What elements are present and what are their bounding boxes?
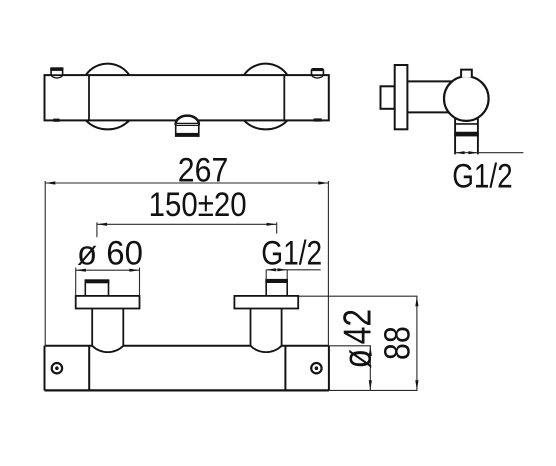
outlet below circle (455, 119, 478, 155)
left standpipe (92, 309, 123, 346)
left top knob (50, 68, 63, 78)
bar body fill (45, 346, 329, 391)
right valve body top arc (244, 64, 287, 76)
arrow left (side G1/2) (455, 151, 464, 154)
right underside mark (314, 118, 322, 121)
svg-text:G1/2: G1/2 (261, 235, 322, 273)
267 dimension (45, 181, 328, 346)
left screw (52, 363, 62, 373)
body bottom line (407, 111, 451, 113)
bar bottom edge (45, 389, 329, 391)
ø42 dimension line (369, 346, 371, 391)
valve circle (444, 76, 489, 121)
left G1/2 fitting (85, 280, 110, 296)
svg-text:267: 267 (178, 151, 229, 189)
ø60 dimension (76, 268, 140, 296)
bar right edge (328, 346, 330, 391)
knob on circle top (461, 70, 472, 78)
svg-text:ø 60: ø 60 (77, 235, 143, 273)
svg-text:ø: ø (336, 349, 379, 369)
right side dimension extension lines (299, 296, 418, 390)
left flange (76, 296, 140, 309)
right end-cap line (283, 75, 285, 120)
bar body (45, 75, 329, 120)
svg-text:G1/2: G1/2 (452, 157, 513, 195)
bar top edge segments (45, 345, 93, 347)
outlet thread black band (454, 133, 479, 137)
left valve body top arc (86, 64, 129, 76)
left underside mark (53, 119, 59, 122)
G1/2 dimension line (side view) (455, 152, 523, 154)
88 dimension line (416, 296, 418, 390)
left cap line (88, 346, 90, 390)
left pipe joint arc (92, 346, 123, 352)
bar left edge (44, 346, 46, 391)
svg-text:42: 42 (336, 309, 379, 345)
right G1/2 fitting (265, 279, 288, 296)
right flange (234, 296, 298, 309)
150±20 dimension (97, 222, 277, 237)
right cap line (284, 346, 286, 390)
right top knob (312, 69, 324, 78)
wall inlet square (381, 86, 395, 109)
body top line (407, 80, 452, 82)
right screw (311, 363, 321, 373)
left end-cap line (88, 75, 90, 120)
arrow right (side G1/2) (468, 151, 477, 154)
handle (center, below bar) (176, 116, 199, 137)
left valve body bottom arc (86, 120, 129, 129)
wall flange (395, 65, 408, 129)
G1/2 dimension (bottom view) (266, 270, 321, 280)
right standpipe (251, 309, 282, 346)
svg-text:150±20: 150±20 (149, 186, 247, 224)
svg-text:88: 88 (377, 326, 418, 360)
right pipe joint arc (251, 346, 282, 352)
right valve body bottom arc (244, 120, 287, 129)
